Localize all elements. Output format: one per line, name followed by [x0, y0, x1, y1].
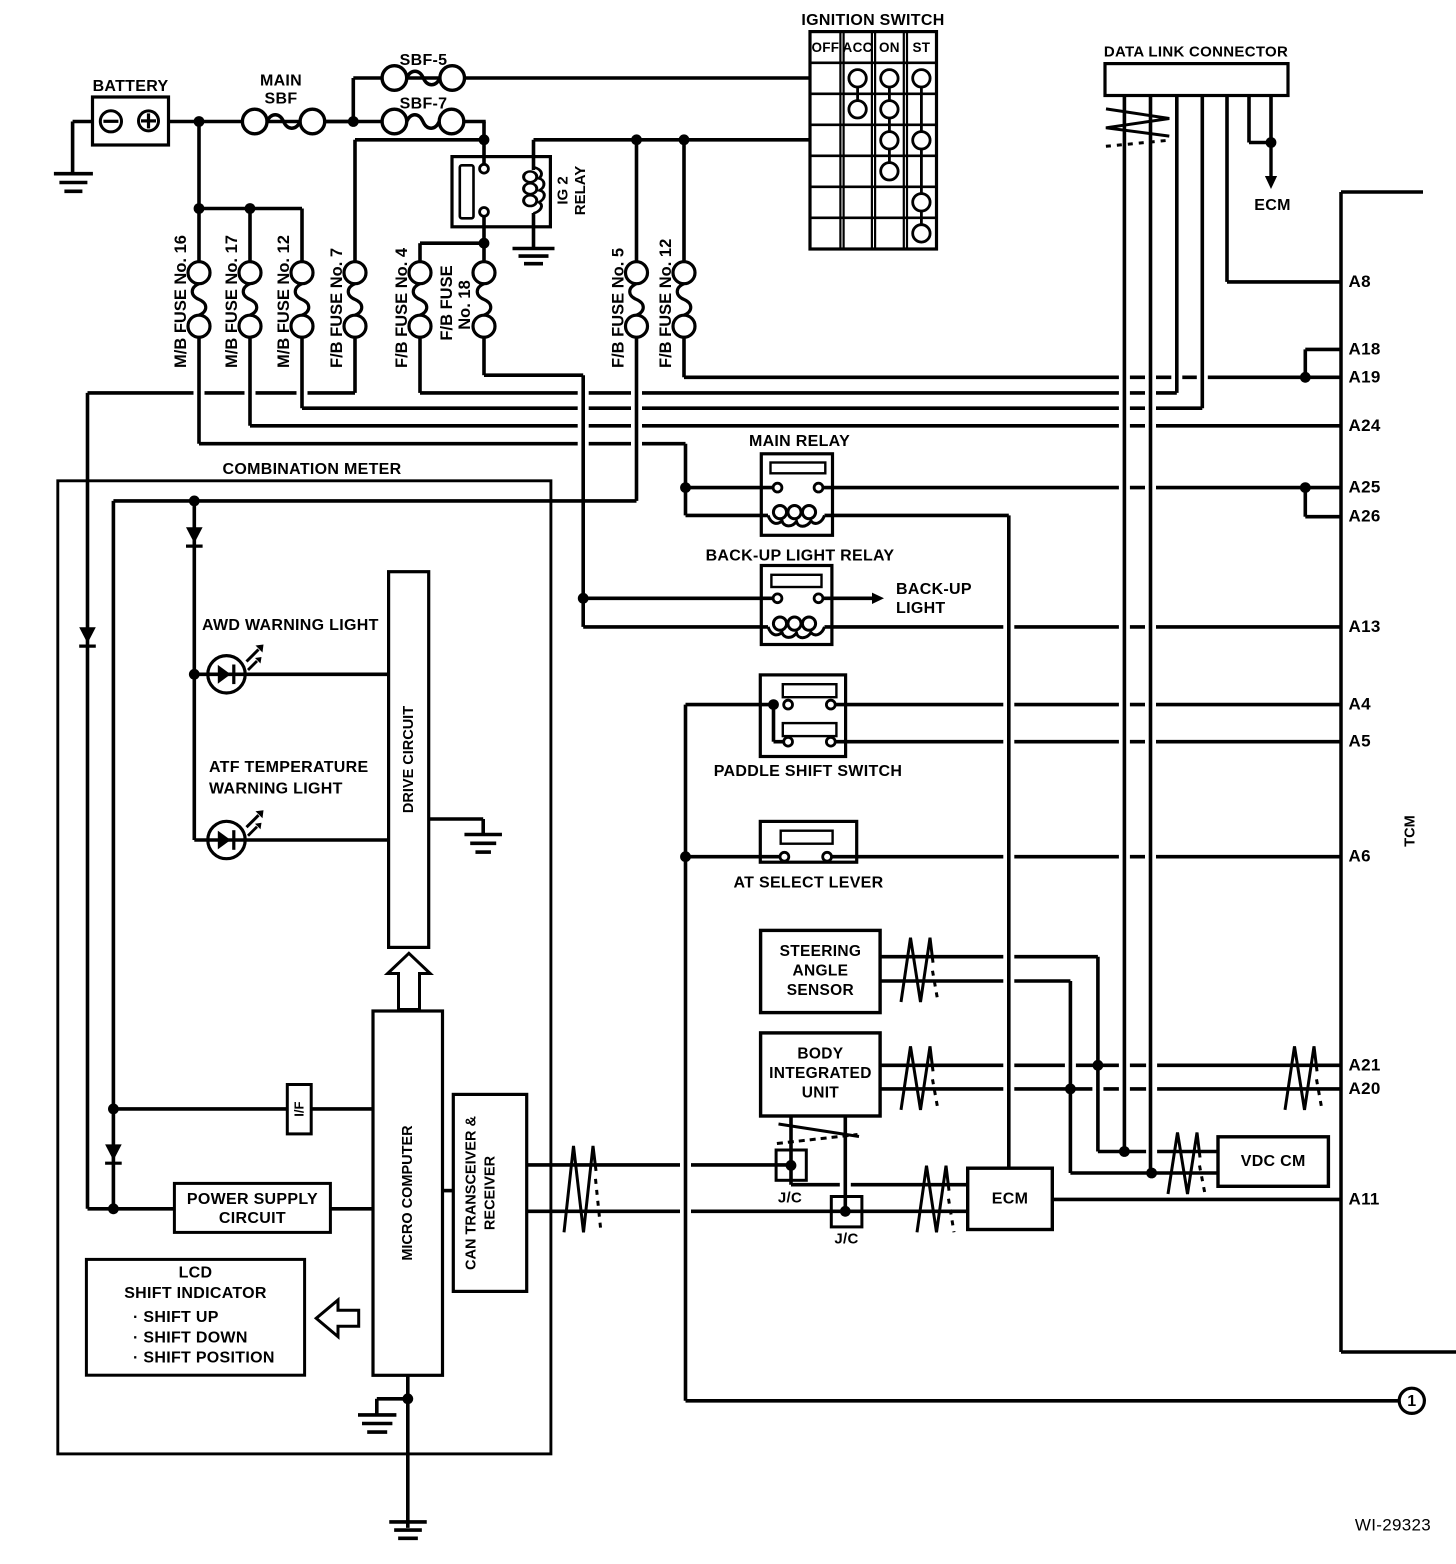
wire data link connector line 3	[1175, 96, 1179, 393]
wire F/B fuse No. 5 to combination meter	[113, 499, 636, 503]
junction I/F tap	[108, 1104, 119, 1115]
wire power supply circuit left	[88, 1207, 175, 1211]
ignition switch contacts	[849, 70, 930, 242]
svg-text:ATF TEMPERATURE: ATF TEMPERATURE	[209, 759, 368, 776]
pin A21 label	[1349, 1055, 1381, 1074]
VDC CM label	[1241, 1153, 1306, 1170]
wire main relay coil return to ECM	[1007, 515, 1011, 1168]
pin A20 label	[1349, 1079, 1381, 1098]
junction AWD warning light	[189, 669, 200, 680]
wire main relay coil to ECM drop	[825, 514, 1009, 518]
fuse F/B FUSE No. 5 label	[610, 248, 628, 368]
wire F/B fuse No. 5 riser	[635, 140, 639, 262]
wire data link connector line 1	[1123, 96, 1127, 1152]
wire body integrated unit pin 1 drop	[789, 1116, 793, 1185]
DRIVE CIRCUIT label	[401, 706, 417, 813]
svg-text:A13: A13	[1349, 617, 1381, 636]
wire AT select lever to A6	[832, 855, 1342, 859]
switch paddle shift slots	[783, 684, 837, 736]
wire ATF warning light row	[194, 838, 388, 842]
relay main relay contact slot	[771, 463, 826, 474]
junction micro computer ground tap	[402, 1393, 413, 1404]
wire back-up light relay coil feed	[583, 625, 768, 629]
relay main relay contact pins	[773, 483, 823, 492]
wire junction connector 2 to ECM	[845, 1210, 967, 1214]
svg-text:A4: A4	[1349, 695, 1372, 714]
svg-text:INTEGRATED: INTEGRATED	[769, 1065, 872, 1082]
relay BACK-UP LIGHT RELAY label	[706, 548, 895, 565]
wire IG 2 relay output to F/B fuse No. 4	[420, 241, 484, 245]
wire A26 bracket	[1304, 488, 1308, 517]
wire F/B fuse No. 18 output	[482, 337, 486, 375]
pin A26 label	[1349, 507, 1381, 526]
fuse F/B FUSE No. 7 label	[328, 248, 346, 368]
svg-text:A21: A21	[1349, 1055, 1381, 1074]
svg-text:LCD: LCD	[179, 1265, 213, 1282]
wire IG 2 relay coil top	[532, 140, 536, 170]
svg-text:No. 18: No. 18	[456, 280, 474, 330]
ATF TEMPERATURE WARNING LIGHT label	[209, 759, 368, 798]
svg-text:A11: A11	[1349, 1189, 1380, 1208]
wire SBF-7 output to IG 2 relay corner	[464, 120, 486, 124]
svg-text:F/B FUSE No. 12: F/B FUSE No. 12	[657, 239, 675, 368]
svg-text:OFF: OFF	[811, 40, 839, 55]
svg-text:BODY: BODY	[797, 1045, 843, 1062]
svg-text:SBF-7: SBF-7	[400, 96, 448, 113]
svg-text:ANGLE: ANGLE	[793, 962, 849, 979]
svg-text:A6: A6	[1349, 847, 1371, 866]
relay back-up light relay coil	[768, 617, 825, 638]
svg-text:ST: ST	[912, 40, 930, 55]
CAN transceiver box	[453, 1094, 526, 1291]
wire main relay coil feed	[686, 514, 769, 518]
wire F/B fuse No. 4 to data link connector	[420, 391, 1177, 395]
SBF-5 label	[400, 52, 448, 69]
ignition switch column headers	[811, 40, 930, 55]
diagram number WI-29323	[1355, 1516, 1431, 1535]
relay MAIN RELAY label	[749, 433, 850, 450]
wire CAN H to VDC CM	[1098, 1150, 1218, 1154]
svg-text:F/B FUSE No. 4: F/B FUSE No. 4	[393, 247, 411, 368]
pin A5 label	[1349, 732, 1371, 751]
twisted pair at ECM	[917, 1166, 954, 1233]
fuse F/B FUSE No. 5	[626, 262, 648, 338]
svg-text:AT SELECT LEVER: AT SELECT LEVER	[734, 875, 884, 892]
wire IG 2 relay coil row to ignition switch	[534, 138, 811, 142]
wire main relay feeder drop	[684, 444, 688, 516]
wire drive circuit ground lead	[429, 817, 484, 821]
junction ECM arrow tap	[1266, 137, 1277, 148]
junction A25/A26	[1300, 482, 1311, 493]
wire I/F row left	[113, 1107, 287, 1111]
fuse F/B FUSE No. 18	[473, 262, 495, 338]
switch paddle shift pins	[784, 700, 836, 746]
junction AT select lever feed	[680, 851, 691, 862]
diode meter feed 1	[186, 527, 203, 546]
svg-text:A18: A18	[1349, 339, 1381, 358]
svg-text:IG 2: IG 2	[555, 176, 572, 204]
ground battery	[54, 174, 93, 192]
svg-text:SHIFT INDICATOR: SHIFT INDICATOR	[124, 1285, 267, 1302]
junction M/B fuse feeder 17	[245, 203, 256, 214]
pin A25 label	[1349, 478, 1381, 497]
wire F/B fuse No. 7 riser	[353, 140, 357, 262]
fuse M/B FUSE No. 17 label	[223, 235, 241, 368]
wire data link connector ECM branch	[1249, 141, 1271, 145]
wire AT select lever feed	[686, 855, 781, 859]
svg-text:A26: A26	[1349, 507, 1381, 526]
wire data link connector line 7	[1269, 96, 1273, 143]
pin A11 label	[1349, 1189, 1380, 1208]
twisted pair body integrated unit output	[901, 1046, 938, 1110]
BODY INTEGRATED UNIT label	[769, 1045, 872, 1101]
wire back-up light relay contact feed	[583, 596, 773, 600]
twisted pair data link connector lines	[1106, 109, 1169, 146]
wire data link connector line 5 to A8	[1225, 96, 1229, 282]
svg-text:VDC CM: VDC CM	[1241, 1153, 1306, 1170]
relay back-up light relay contact slot	[771, 575, 821, 587]
svg-text:AWD WARNING LIGHT: AWD WARNING LIGHT	[202, 617, 379, 634]
relay IG 2 contact blade	[460, 165, 474, 218]
LCD shift indicator box	[86, 1259, 304, 1375]
ECM arrow label	[1254, 197, 1290, 214]
wire CAN L to VDC CM	[1070, 1171, 1218, 1175]
POWER SUPPLY CIRCUIT label	[187, 1191, 318, 1227]
wire power supply circuit right	[330, 1207, 373, 1211]
svg-text:UNIT: UNIT	[802, 1084, 840, 1101]
AT SELECT LEVER label	[734, 875, 884, 892]
fuse F/B FUSE No. 4 label	[393, 247, 411, 368]
ECM label	[992, 1190, 1028, 1207]
svg-text:A5: A5	[1349, 732, 1371, 751]
svg-text:ON: ON	[879, 40, 900, 55]
wire battery to MAIN SBF bus	[169, 120, 355, 124]
wire A8 from data link connector	[1227, 280, 1341, 284]
off-page connector 1	[1399, 1388, 1424, 1413]
ignition switch label	[801, 12, 944, 29]
wire F/B fuse No. 5 output	[635, 337, 639, 501]
relay back-up light relay box	[761, 566, 832, 645]
wire SBF-5 row to ignition switch	[353, 76, 810, 80]
junction CAN L / DLC line 2	[1146, 1168, 1157, 1179]
wire paddle shift jumper	[772, 705, 776, 742]
svg-text:IGNITION SWITCH: IGNITION SWITCH	[801, 12, 944, 29]
wire F/B fuse No. 7 output	[353, 337, 357, 393]
pin A8 label	[1349, 272, 1371, 291]
TCM label	[1403, 815, 1419, 846]
LCD SHIFT INDICATOR label	[124, 1265, 274, 1367]
junction SBF-7 to IG 2 relay	[479, 134, 490, 145]
fuse M/B FUSE No. 12	[291, 262, 313, 338]
junction paddle shift feed	[768, 699, 779, 710]
wire paddle shift jumper to lower pin	[774, 740, 784, 744]
MICRO COMPUTER label	[400, 1125, 416, 1261]
ground micro computer internal	[358, 1415, 396, 1432]
svg-text:RELAY: RELAY	[572, 166, 589, 215]
wire battery junction to M/B fuse No. 16	[197, 122, 201, 263]
wire to off-page connector 1	[686, 1399, 1400, 1403]
PADDLE SHIFT SWITCH label	[714, 763, 903, 780]
wire I/F row right	[311, 1107, 373, 1111]
fuse M/B FUSE No. 12 label	[275, 235, 293, 368]
wire body integrated unit to A20	[880, 1087, 1341, 1091]
wire micro computer ground	[406, 1375, 410, 1528]
svg-text:ACC: ACC	[843, 40, 873, 55]
svg-text:F/B FUSE No. 5: F/B FUSE No. 5	[610, 248, 628, 368]
fuse M/B FUSE No. 16 label	[172, 235, 190, 368]
wire A18 stub	[1305, 348, 1341, 352]
AWD WARNING LIGHT label	[202, 617, 379, 634]
svg-text:PADDLE SHIFT SWITCH: PADDLE SHIFT SWITCH	[714, 763, 903, 780]
pin A4 label	[1349, 695, 1372, 714]
svg-text:CIRCUIT: CIRCUIT	[219, 1210, 286, 1227]
svg-text:COMBINATION METER: COMBINATION METER	[222, 461, 401, 478]
svg-text:A24: A24	[1349, 416, 1381, 435]
wire battery ground drop	[71, 122, 75, 174]
wire A26 stub	[1305, 515, 1341, 519]
arrow micro computer to drive circuit	[388, 953, 431, 1009]
svg-text:M/B FUSE No. 12: M/B FUSE No. 12	[275, 235, 293, 368]
junction M/B fuse feeder 16	[194, 203, 205, 214]
ignition switch table	[810, 32, 937, 249]
wire main relay contact feed	[686, 486, 774, 490]
svg-text:· SHIFT POSITION: · SHIFT POSITION	[133, 1350, 275, 1367]
junction F/B fuse No. 12 tap	[679, 134, 690, 145]
wire IG 2 relay coil to ground	[532, 213, 536, 249]
svg-text:RECEIVER: RECEIVER	[483, 1155, 499, 1230]
junction CAN L at A20	[1065, 1084, 1076, 1095]
switch AT select lever slot	[781, 831, 833, 844]
fuse F/B FUSE No. 18 label	[438, 265, 474, 340]
wire M/B fuse No. 12 drop	[300, 209, 304, 263]
junction back-up relay feed	[578, 593, 589, 604]
fuse M/B FUSE No. 17	[239, 262, 261, 338]
TCM box	[1341, 192, 1456, 1352]
junction meter warning light branch	[189, 496, 200, 507]
junction F/B fuse No. 5 tap	[631, 134, 642, 145]
wire meter power branch	[112, 501, 116, 1209]
wire M/B fuse No. 12 to data link connector	[302, 406, 1202, 410]
MAIN SBF label	[260, 73, 302, 108]
ground drive circuit	[464, 835, 502, 853]
wire steering sensor CAN H drop	[1096, 957, 1100, 1152]
svg-text:ECM: ECM	[1254, 197, 1290, 214]
ground micro computer external	[389, 1522, 427, 1538]
wire micro computer ground step	[377, 1397, 408, 1401]
J/C 2 label	[834, 1231, 858, 1248]
junction connector J/C 2	[831, 1197, 862, 1227]
wire data link connector line 2	[1149, 96, 1153, 1174]
relay main relay coil	[768, 506, 825, 527]
wire paddle shift switch feed	[686, 703, 774, 707]
wire drive circuit ground drop	[481, 819, 485, 835]
wire M/B fuse No. 16 to main relay	[199, 442, 686, 446]
svg-text:WI-29323: WI-29323	[1355, 1516, 1431, 1535]
STEERING ANGLE SENSOR label	[780, 943, 862, 999]
twisted pair at A21/A20	[1285, 1046, 1322, 1110]
junction CAN H / DLC line 1	[1119, 1146, 1130, 1157]
SBF-7 label	[400, 96, 448, 113]
svg-text:J/C: J/C	[834, 1231, 858, 1248]
arrow to back-up light	[872, 593, 884, 604]
data link connector label	[1104, 44, 1288, 61]
svg-text:MICRO COMPUTER: MICRO COMPUTER	[400, 1125, 416, 1261]
svg-text:TCM: TCM	[1403, 815, 1419, 846]
wire M/B fuse No. 17 drop	[248, 209, 252, 263]
svg-text:LIGHT: LIGHT	[896, 600, 946, 617]
relay back-up light relay contact pins	[773, 594, 823, 603]
pin A6 label	[1349, 847, 1371, 866]
relay IG 2 box	[452, 157, 550, 227]
body integrated unit box	[761, 1033, 881, 1116]
svg-text:· SHIFT DOWN: · SHIFT DOWN	[133, 1330, 248, 1347]
wire CAN transceiver line 1	[527, 1163, 788, 1167]
svg-text:SBF-5: SBF-5	[400, 52, 448, 69]
BACK-UP LIGHT label	[896, 581, 972, 617]
junction connector J/C 1	[776, 1150, 806, 1180]
wire ECM to A11	[1052, 1198, 1341, 1202]
fuse F/B FUSE No. 12 label	[657, 239, 675, 368]
wire M/B fuse No. 16 output	[197, 337, 201, 444]
svg-text:J/C: J/C	[778, 1190, 802, 1207]
svg-text:SENSOR: SENSOR	[787, 982, 854, 999]
I/F label	[292, 1102, 307, 1117]
wire data link connector line 6	[1247, 96, 1251, 143]
svg-text:SBF: SBF	[265, 91, 298, 108]
wire IG 2 relay output	[482, 212, 486, 262]
data link connector box	[1105, 64, 1288, 96]
wire F/B fuse No. 12 output	[682, 337, 686, 377]
drive circuit box	[389, 572, 429, 948]
pin A24 label	[1349, 416, 1381, 435]
fuse F/B FUSE No. 7	[344, 262, 366, 338]
VDC CM box	[1218, 1137, 1328, 1187]
wire SBF-5 riser	[351, 78, 355, 122]
diode meter feed 3	[105, 1144, 122, 1163]
wire MAIN SBF to SBF-7 bus	[325, 120, 382, 124]
combination meter box	[58, 481, 551, 1454]
wire paddle shift switch to A4	[835, 703, 1341, 707]
svg-text:A19: A19	[1349, 367, 1381, 386]
wire SBF-7 junction to F/B fuse No. 7	[355, 138, 484, 142]
fuse MAIN SBF	[242, 109, 324, 134]
switch AT select lever pins	[780, 852, 831, 861]
svg-text:A25: A25	[1349, 478, 1381, 497]
svg-text:1: 1	[1407, 1393, 1416, 1410]
twisted pair steering angle sensor	[901, 938, 938, 1002]
wire F/B fuse No. 7 to combination meter feed	[88, 391, 356, 395]
svg-text:F/B FUSE No. 7: F/B FUSE No. 7	[328, 248, 346, 368]
pin A18 label	[1349, 339, 1381, 358]
junction A18/A19	[1300, 372, 1311, 383]
svg-text:BATTERY: BATTERY	[93, 78, 169, 95]
LED AWD warning light	[208, 645, 264, 694]
arrow micro computer to LCD	[316, 1300, 359, 1337]
wire F/B fuse No. 4 output	[418, 337, 422, 393]
wire AWD warning light row	[194, 672, 388, 676]
svg-text:M/B FUSE No. 16: M/B FUSE No. 16	[172, 235, 190, 368]
CAN TRANSCEIVER & RECEIVER label	[464, 1116, 499, 1270]
wire warning light branch	[193, 501, 197, 840]
fuse F/B FUSE No. 4	[409, 262, 431, 338]
pin A19 label	[1349, 367, 1381, 386]
wire CAN transceiver line 2	[527, 1210, 843, 1214]
wire paddle shift switch to A5	[835, 740, 1341, 744]
wire crossover gaps (no connection)	[194, 373, 1208, 1215]
junction main relay feed	[680, 482, 691, 493]
combination meter label	[222, 461, 401, 478]
wire steering angle sensor CAN L	[880, 979, 1070, 983]
switch AT select lever box	[760, 821, 856, 862]
switch paddle shift box	[760, 675, 845, 757]
wire steering sensor CAN L drop	[1069, 981, 1073, 1173]
svg-text:F/B FUSE: F/B FUSE	[438, 265, 456, 340]
svg-text:BACK-UP: BACK-UP	[896, 581, 972, 598]
wire back-up light relay to back-up light	[823, 596, 874, 600]
junction IG 2 relay output	[479, 238, 490, 249]
svg-text:WARNING LIGHT: WARNING LIGHT	[209, 780, 343, 797]
wire M/B fuse feeder	[199, 207, 302, 211]
svg-text:POWER SUPPLY: POWER SUPPLY	[187, 1191, 318, 1208]
LED ATF temperature warning light	[208, 810, 264, 859]
wire steering angle sensor CAN H	[880, 955, 1098, 959]
wire paddle shift to AT select to connector 1	[684, 705, 688, 1401]
wire micro computer ground step drop	[375, 1399, 379, 1415]
junction battery bus	[194, 116, 205, 127]
steering angle sensor box	[761, 930, 881, 1012]
fuse SBF-7	[382, 109, 464, 134]
wire body integrated unit to A21	[880, 1064, 1341, 1068]
ground IG 2 relay	[513, 249, 555, 264]
wire M/B fuse No. 17 output	[248, 337, 252, 426]
relay IG 2 contact pins	[480, 164, 489, 216]
svg-text:BACK-UP LIGHT RELAY: BACK-UP LIGHT RELAY	[706, 548, 895, 565]
wire junction connector 1 to ECM	[791, 1183, 968, 1187]
wire F/B fuse No. 12 to A19	[684, 375, 1341, 379]
svg-text:MAIN RELAY: MAIN RELAY	[749, 433, 850, 450]
battery	[73, 97, 169, 145]
arrow to ECM	[1265, 143, 1277, 190]
twisted pair body integrated unit drop	[777, 1124, 859, 1144]
wire F/B fuse No. 4 drop	[418, 243, 422, 262]
svg-text:A8: A8	[1349, 272, 1371, 291]
wire combination meter feed drop	[86, 393, 90, 1209]
wire M/B fuse No. 17 to A24	[250, 424, 1341, 428]
wire micro computer to CAN transceiver	[443, 1189, 454, 1193]
wire data link connector line 4	[1201, 96, 1205, 409]
battery label	[93, 78, 169, 95]
svg-text:CAN TRANSCEIVER &: CAN TRANSCEIVER &	[464, 1116, 480, 1270]
twisted pair at VDC CM	[1168, 1133, 1205, 1195]
IG 2 RELAY label	[555, 166, 590, 215]
wire A18 bracket	[1304, 349, 1308, 377]
wire back-up light relay coil to A13	[825, 625, 1342, 629]
wire back-up light relay feeder	[581, 375, 585, 627]
svg-text:M/B FUSE No. 17: M/B FUSE No. 17	[223, 235, 241, 368]
twisted pair CAN transceiver	[564, 1146, 601, 1232]
svg-text:· SHIFT UP: · SHIFT UP	[133, 1309, 219, 1326]
I/F box	[287, 1085, 311, 1134]
micro computer box	[373, 1011, 443, 1375]
fuse M/B FUSE No. 16	[188, 262, 210, 338]
junction MAIN SBF / SBF fuses	[348, 116, 359, 127]
fuse SBF-5	[382, 66, 464, 91]
pin A13 label	[1349, 617, 1381, 636]
svg-text:MAIN: MAIN	[260, 73, 302, 90]
J/C 1 label	[778, 1190, 802, 1207]
relay IG 2 coil	[524, 167, 545, 213]
wire body integrated unit pin 2 drop	[843, 1116, 847, 1211]
